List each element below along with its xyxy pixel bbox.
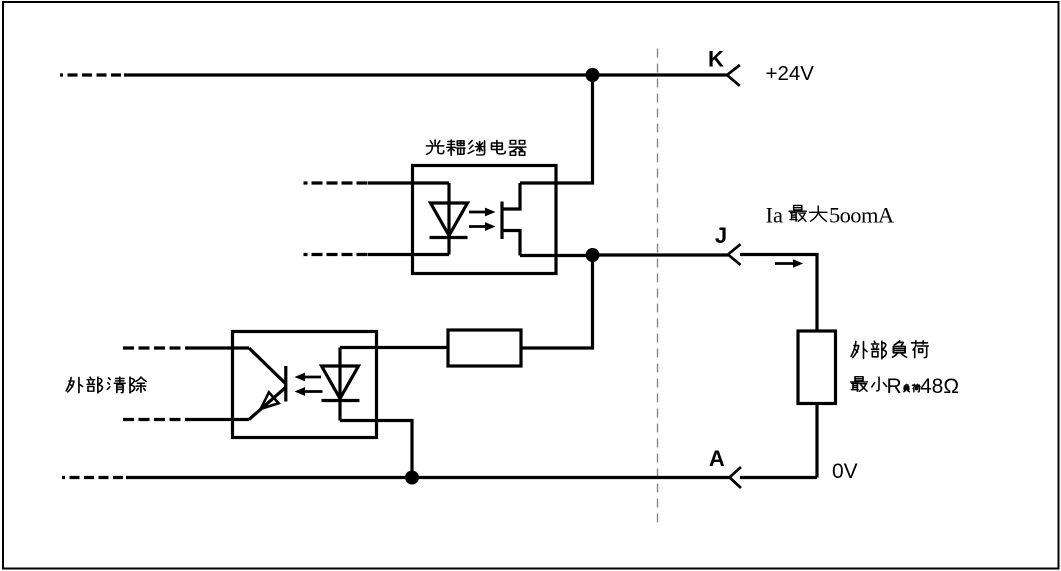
optocoupler U2 box bbox=[233, 332, 377, 438]
light arrows U1 bbox=[469, 208, 496, 231]
wire U2 input top bbox=[186, 346, 249, 349]
resistor R load bbox=[798, 331, 836, 404]
svg-text:5oomA: 5oomA bbox=[829, 203, 895, 228]
svg-text:A: A bbox=[709, 446, 725, 471]
svg-text:Ia: Ia bbox=[766, 203, 783, 228]
optocoupler relay U1 box bbox=[413, 166, 557, 274]
label 外部负荷 bbox=[851, 341, 928, 359]
wire D2 anode to resistor R1 bbox=[340, 346, 448, 349]
wire U1 input bottom dashed lead-in bbox=[304, 253, 369, 256]
node K junction bbox=[586, 68, 600, 82]
wire load bottom bbox=[815, 404, 818, 478]
wire terminal A to load bbox=[740, 476, 817, 479]
wire terminal J to load bbox=[740, 255, 817, 332]
terminal A arrowhead bbox=[730, 467, 742, 488]
wire U1 input top dashed lead-in bbox=[304, 181, 369, 184]
wire 0V rail bbox=[126, 476, 730, 479]
label 光耦继电器 bbox=[426, 140, 525, 155]
wire U1 input top bbox=[368, 181, 449, 184]
node J junction bbox=[586, 248, 600, 262]
light arrows U2 bbox=[295, 373, 323, 396]
wire D2 cathode to node A bbox=[340, 421, 412, 478]
wire U1 input bottom bbox=[368, 253, 449, 256]
terminal K arrowhead bbox=[727, 65, 740, 86]
label min R load 48 ohm bbox=[851, 377, 887, 392]
wire U2 input bottom bbox=[186, 418, 249, 421]
wire +24V rail dashed lead-in bbox=[60, 73, 126, 76]
LED D2 bbox=[322, 348, 360, 421]
node A junction bbox=[405, 471, 419, 485]
phototransistor Q2 bbox=[249, 348, 286, 420]
wire Q1 source to node J bbox=[520, 254, 593, 257]
resistor R1 bbox=[448, 330, 521, 366]
current arrow Ia bbox=[775, 262, 794, 265]
svg-text:R: R bbox=[887, 375, 902, 398]
svg-text:48Ω: 48Ω bbox=[920, 375, 959, 398]
wire U2 input top dashed lead-in bbox=[123, 346, 188, 349]
wire R1 to node J bbox=[521, 255, 593, 348]
svg-text:J: J bbox=[715, 223, 727, 248]
wire 0V rail dashed lead-in bbox=[62, 476, 128, 479]
label 外部清除 bbox=[66, 377, 146, 393]
boundary dashed line bbox=[657, 49, 659, 526]
LED D1 bbox=[430, 183, 468, 255]
terminal J arrowhead bbox=[728, 244, 741, 265]
wire +24V rail bbox=[124, 73, 727, 76]
svg-text:K: K bbox=[708, 47, 724, 72]
svg-text:0V: 0V bbox=[832, 460, 858, 483]
wire node J to terminal J bbox=[593, 253, 729, 256]
wire Q1 drain to +24V rail bbox=[520, 75, 593, 183]
svg-text:+24V: +24V bbox=[766, 62, 815, 85]
wire U2 input bottom dashed lead-in bbox=[123, 418, 188, 421]
MOSFET Q1 bbox=[502, 183, 520, 256]
